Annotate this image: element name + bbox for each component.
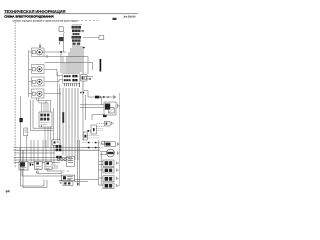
lamp2 bulb [37, 67, 42, 72]
wire right fan lower [92, 63, 94, 71]
relay dark core [105, 104, 110, 110]
connector stack blob4 [72, 36, 82, 39]
ground left of battery [59, 181, 62, 184]
wire right of switch [53, 108, 55, 148]
wire across to right [84, 91, 88, 98]
ground tick [118, 143, 119, 146]
junction dots on dashes [88, 142, 90, 144]
headlight bulb [37, 49, 43, 55]
wire lamp4 to bundle [45, 93, 62, 95]
wire lamp1 to bundle [43, 51, 67, 53]
caption dashed extension [66, 20, 100, 22]
left drop wires [19, 148, 21, 163]
svg-text:СХЕМА ЭЛЕКТРООБОРУДОВАНИЯ: СХЕМА ЭЛЕКТРООБОРУДОВАНИЯ [4, 15, 53, 19]
lamp3 bulb [37, 79, 42, 84]
wires vertical mid right [82, 95, 84, 140]
small box top-left of stack [59, 27, 63, 32]
connector stack blob3 [73, 33, 80, 35]
starter relay box [104, 102, 116, 115]
open square terminal [102, 141, 105, 144]
wire lamp2 to bundle [45, 68, 58, 70]
headlight base [32, 51, 35, 54]
connector stack top line [72, 23, 82, 25]
bundle vertical wires [72, 45, 74, 73]
wire from relay bottom [92, 115, 104, 121]
connector stack blob5 [72, 39, 81, 41]
junction dot [60, 51, 62, 53]
wire lamp3 to bundle [45, 81, 60, 83]
dashed rows below flasher [96, 128, 103, 130]
brake switch component [105, 142, 116, 147]
wire stack to terminal [83, 37, 99, 39]
wire corner from lamp rows down [60, 52, 62, 73]
bus end connector blobs lower [56, 156, 58, 158]
junction dot on run [103, 96, 105, 98]
diagram left border [14, 22, 16, 168]
nested bottom corners [21, 163, 45, 186]
lamp4 bulb [37, 91, 42, 96]
main right run y97 [88, 96, 112, 98]
small connector glyph [59, 37, 64, 41]
corner from lamps down-right [37, 98, 51, 112]
ignition switch contacts row2 [40, 118, 43, 121]
rear lamp box 4 [103, 183, 114, 189]
regulator box [45, 161, 52, 169]
magneto box [67, 157, 75, 167]
arrow into headlight [39, 44, 41, 48]
lamp2 box [32, 65, 45, 74]
horn [107, 149, 115, 157]
connector shell box right [81, 75, 88, 81]
label marks above battery [61, 171, 70, 173]
bus end connector blobs upper [56, 145, 59, 148]
wire: second left vertical [26, 136, 28, 150]
lamp3 box [32, 77, 45, 86]
inline ticks between comps [30, 163, 32, 166]
rear harness vertical [98, 140, 100, 185]
stack white notches [75, 26, 78, 45]
ground tick right [112, 122, 113, 125]
right frame line [119, 93, 121, 186]
svg-text:ТЕХНИЧЕСКАЯ ИНФОРМАЦИЯ: ТЕХНИЧЕСКАЯ ИНФОРМАЦИЯ [4, 9, 65, 14]
wires below switch [45, 127, 51, 148]
junction dots below cluster [80, 92, 81, 93]
page background [0, 0, 142, 200]
wire lamp1 lower [45, 56, 89, 58]
cluster row1 blobs [64, 75, 66, 77]
switch label dashes [40, 123, 49, 125]
arrow on run [107, 96, 109, 98]
top-right small mark [113, 18, 117, 20]
blob under relay [103, 115, 107, 117]
battery bottom box [62, 175, 75, 181]
bus inline connector box [52, 140, 60, 145]
ground symbol [113, 95, 115, 99]
lamp4 box [32, 89, 45, 98]
small comp box left [24, 128, 28, 136]
header rule [4, 13, 138, 16]
relay inner box [109, 108, 115, 113]
connector stack blob2 [72, 30, 81, 33]
extra bundle wires left [57, 72, 59, 140]
spark cluster circles [57, 158, 60, 161]
headlight lamp box [32, 48, 45, 57]
connector stack blob1 [72, 26, 82, 29]
inline connector on left feed [19, 118, 22, 122]
sleeve blob on bundle [62, 112, 64, 123]
terminal box [99, 36, 104, 40]
cluster row2 blobs [64, 79, 66, 81]
dashed wire to pilot box [97, 123, 105, 125]
ignition switch box [39, 112, 52, 127]
ignition switch contacts row1 [40, 114, 43, 117]
comb ticks below cluster [65, 83, 77, 86]
battery lower row [63, 181, 73, 185]
wires into relay [80, 104, 104, 106]
svg-text:Jet 50/100: Jet 50/100 [123, 15, 136, 18]
pilot lamp box [105, 121, 111, 126]
rear lamp box 2 [103, 168, 114, 173]
ignition coil box [19, 161, 28, 170]
wire battery to rear harness [74, 180, 99, 182]
ground ticks right of relay [118, 104, 119, 108]
dashed rows mid-right bottom [82, 142, 101, 144]
corner wires into cluster [57, 69, 63, 76]
inline connector blob [95, 96, 99, 99]
wire right fan upper [87, 57, 89, 75]
bus lines across [14, 147, 101, 149]
flasher relay box [91, 125, 97, 134]
tick cross [46, 55, 48, 58]
label bar (dark) right [100, 59, 102, 72]
wire drop left of bundle [59, 88, 61, 150]
marks left of flasher [87, 130, 89, 132]
vertical pair bottom right of battery [78, 140, 80, 186]
narrow comp on bundle [83, 132, 87, 140]
side tick [83, 47, 85, 48]
wires right of shell [87, 77, 93, 80]
svg-text:64: 64 [6, 190, 10, 194]
ignition switch outer route [31, 100, 54, 131]
CDI box [35, 161, 42, 169]
wire: left feed vertical [20, 96, 22, 163]
lamp column rail [28, 50, 30, 97]
bottom-left wires down & corners [22, 170, 62, 176]
junction dot near vertical pair [77, 183, 79, 185]
connector stack blob6 pair [73, 43, 76, 45]
rear lamp box 3 [103, 176, 114, 182]
wire row y62 [45, 62, 93, 64]
wires into switch top [42, 101, 47, 113]
mid connector cluster box [63, 74, 80, 83]
rear lamp box 1 [103, 160, 114, 166]
wires below cluster [62, 88, 64, 155]
